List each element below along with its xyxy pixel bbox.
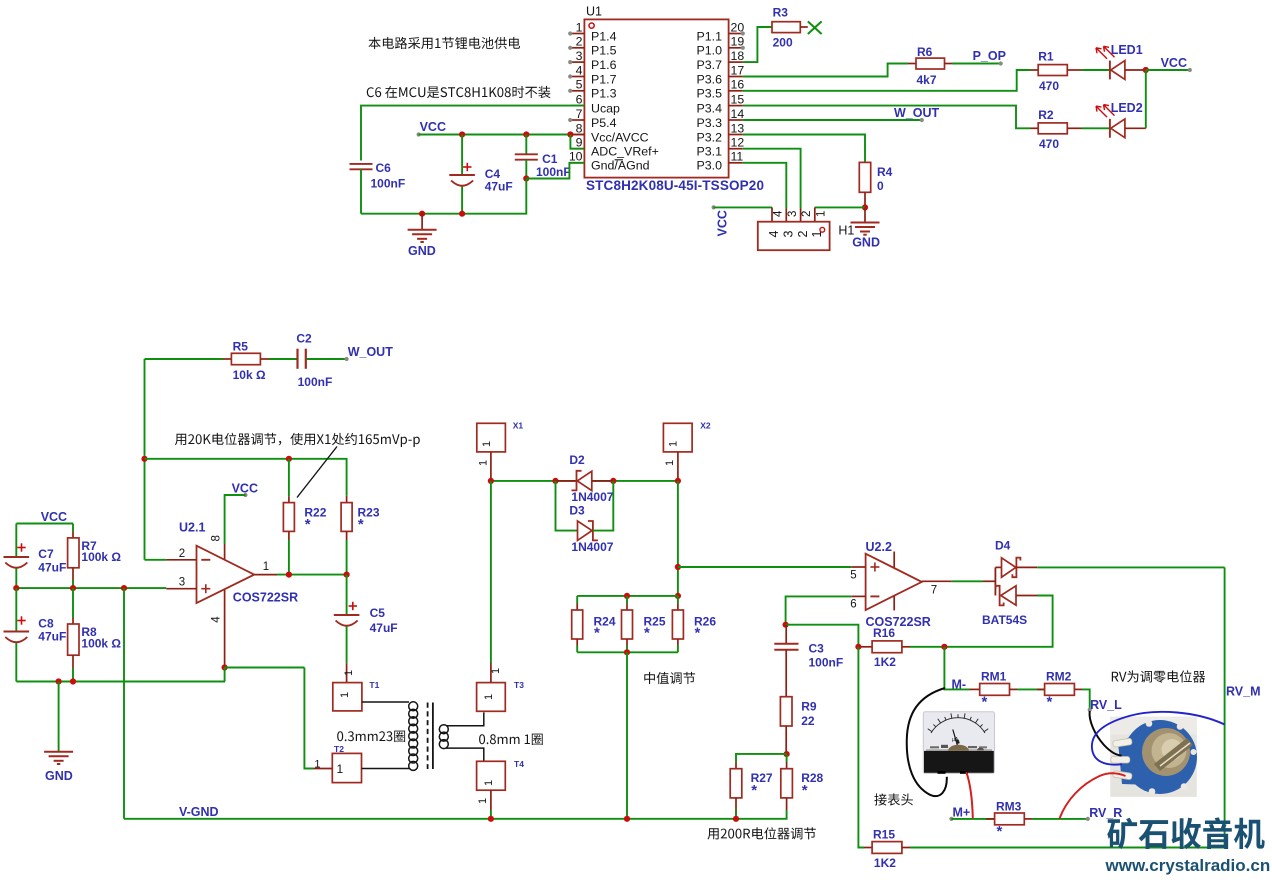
svg-text:Ucap: Ucap — [591, 102, 620, 116]
junction C7/C8 — [13, 585, 19, 591]
svg-text:4k7: 4k7 — [917, 73, 937, 87]
note: power source text — [369, 37, 521, 49]
net label VCC (divider) — [16, 510, 73, 524]
junction X1 — [488, 478, 494, 484]
svg-text:1: 1 — [483, 780, 495, 786]
svg-text:1: 1 — [668, 441, 680, 447]
wire ground rail (analog) — [16, 681, 225, 683]
wire R6 to P_OP endpoint — [952, 63, 1001, 65]
terminal T1 — [333, 680, 380, 711]
wire D4 top to right rail — [1037, 566, 1224, 568]
wire RM1 to RM2 — [1017, 688, 1045, 690]
svg-text:7: 7 — [576, 107, 583, 121]
wire P3.6 pin17 to R6 — [743, 64, 908, 77]
resistor R9 — [780, 697, 816, 754]
capacitor C2 — [269, 332, 347, 389]
diode D2 1N4007 — [556, 453, 614, 504]
svg-text:7: 7 — [931, 585, 937, 597]
resistor RM1 — [970, 670, 1018, 711]
terminal T3 — [477, 663, 525, 711]
transformer core — [428, 703, 433, 770]
capacitor C3 — [774, 625, 843, 697]
wire P3.2 pin13 to R4 — [743, 135, 865, 163]
svg-text:1: 1 — [490, 668, 502, 674]
wire R9 node to R27 — [736, 754, 787, 762]
terminal T2 — [314, 744, 362, 783]
meter photo (analog microammeter) — [923, 712, 994, 774]
junction D2 anode-side — [552, 478, 558, 484]
junction C1 bottom — [523, 175, 529, 181]
LED LED1 — [1096, 43, 1146, 80]
svg-text:ADC_VRef+: ADC_VRef+ — [591, 145, 659, 159]
svg-text:22: 22 — [801, 714, 815, 728]
net label M+ — [949, 806, 970, 822]
junction T4/V-GND — [488, 816, 494, 822]
svg-text:100nF: 100nF — [536, 165, 571, 179]
junction R9 bottom — [784, 751, 790, 757]
junction M- node — [941, 644, 947, 650]
svg-text:2: 2 — [801, 211, 813, 217]
wire M- node down to RM1 — [944, 647, 969, 690]
wire P3.3 pin14 to W_OUT endpoint — [743, 119, 922, 121]
junction ground/GND symbol — [56, 678, 62, 684]
svg-text:P3.6: P3.6 — [697, 72, 723, 86]
resistor R8 — [68, 588, 122, 681]
svg-text:4: 4 — [767, 231, 781, 238]
pointer line from note to R22 — [297, 447, 337, 498]
svg-text:100nF: 100nF — [371, 176, 406, 190]
wire M+ to RM3 — [951, 818, 994, 820]
wire Ucap net: pin6 to C6 top — [361, 106, 584, 161]
svg-text:P1.0: P1.0 — [697, 44, 723, 58]
svg-text:15: 15 — [731, 93, 745, 107]
wire right rail down — [1224, 567, 1226, 847]
meter black lead (hand-drawn) — [907, 688, 947, 796]
wire R2 to LED2 — [1082, 127, 1110, 129]
wire LED1 to VCC endpoint — [1146, 69, 1190, 71]
junction X2 — [675, 478, 681, 484]
wire R24/R25/R26 top rail — [577, 595, 678, 597]
wire D4 bottom to M- node — [944, 596, 1052, 647]
MCU U1 STC8H2K08U-45I-TSSOP20 — [568, 5, 764, 194]
wire ground rail under C6/C4/C1 — [361, 179, 526, 214]
svg-text:47uF: 47uF — [485, 180, 513, 194]
svg-text:4: 4 — [211, 616, 223, 623]
svg-text:C8: C8 — [38, 617, 54, 631]
junction output/R22 — [286, 572, 292, 578]
svg-text:1: 1 — [664, 460, 676, 466]
wire P3.5 pin16 to R1 — [743, 70, 1031, 91]
svg-text:1: 1 — [483, 694, 495, 700]
svg-text:3: 3 — [782, 231, 796, 238]
svg-text:P1.7: P1.7 — [591, 72, 617, 86]
junction R4/H1 pin1/GND — [862, 204, 868, 210]
wire P3.0 pin11 to H1 pin3 — [743, 163, 787, 222]
wire P3.7 pin18 to R3 — [743, 27, 772, 62]
svg-text:C7: C7 — [38, 547, 54, 561]
wire U2.1 output to R22/R23 — [277, 574, 347, 576]
svg-text:RM2: RM2 — [1046, 670, 1072, 684]
junction LED1/VCC — [1143, 67, 1149, 73]
svg-text:RV_R: RV_R — [1089, 806, 1122, 820]
svg-text:RV_L: RV_L — [1090, 698, 1122, 712]
wire pin4 node to T2 column — [225, 667, 305, 669]
resistor R5 — [145, 340, 270, 383]
resistor R28 — [781, 754, 824, 810]
svg-text:1: 1 — [815, 211, 827, 217]
capacitor C6 — [350, 161, 406, 214]
svg-text:RV_M: RV_M — [1226, 685, 1261, 699]
svg-text:U2.2: U2.2 — [866, 540, 892, 554]
svg-text:R1: R1 — [1038, 50, 1054, 64]
wire noninverting rail (pin3) — [16, 587, 166, 589]
svg-text:U1: U1 — [586, 5, 602, 19]
svg-text:P1.6: P1.6 — [591, 58, 617, 72]
svg-text:STC8H2K08U-45I-TSSOP20: STC8H2K08U-45I-TSSOP20 — [586, 178, 764, 193]
svg-text:9: 9 — [576, 136, 583, 150]
svg-text:www.crystalradio.cn: www.crystalradio.cn — [1105, 856, 1271, 875]
svg-text:R5: R5 — [233, 340, 249, 354]
note: mid-value adjust text — [644, 672, 695, 684]
VCC net label and rail (top) — [417, 120, 585, 137]
junction V-GND column — [121, 585, 127, 591]
svg-text:1: 1 — [337, 762, 344, 776]
junction ground/R8 — [70, 678, 76, 684]
svg-text:*: * — [997, 823, 1003, 840]
junction R26 top — [675, 593, 681, 599]
svg-text:*: * — [358, 516, 364, 533]
junction R25 bottom — [624, 649, 630, 655]
svg-text:17: 17 — [731, 63, 745, 77]
svg-text:*: * — [644, 625, 650, 642]
svg-text:T3: T3 — [514, 680, 524, 690]
svg-text:COS722SR: COS722SR — [233, 591, 298, 605]
svg-text:T4: T4 — [514, 759, 524, 769]
svg-text:*: * — [1047, 694, 1053, 711]
svg-text:D3: D3 — [569, 503, 585, 517]
junction R25 top — [624, 593, 630, 599]
junction C3 top — [783, 622, 789, 628]
svg-text:P3.7: P3.7 — [697, 58, 723, 72]
svg-text:D4: D4 — [995, 539, 1011, 553]
junction VCC/C4 — [459, 131, 465, 137]
svg-text:GND: GND — [45, 769, 73, 783]
ground symbol GND (top left) — [408, 214, 437, 259]
svg-text:P3.1: P3.1 — [697, 145, 723, 159]
svg-text:X1: X1 — [513, 420, 524, 430]
svg-text:1: 1 — [339, 692, 351, 698]
svg-text:5: 5 — [576, 78, 583, 92]
note: primary winding text — [337, 731, 405, 742]
svg-text:1: 1 — [263, 561, 269, 573]
junction GND symbol tap — [419, 211, 425, 217]
svg-text:47uF: 47uF — [38, 630, 66, 644]
svg-text:W_OUT: W_OUT — [348, 345, 394, 359]
junction VCC/C1 — [523, 131, 529, 137]
resistor R23 — [341, 496, 380, 575]
svg-text:8: 8 — [576, 121, 583, 135]
svg-text:4: 4 — [773, 210, 785, 217]
resistor R16 — [858, 626, 944, 669]
svg-text:C6: C6 — [376, 161, 392, 175]
svg-text:BAT54S: BAT54S — [982, 613, 1027, 627]
wire VCC to pin9 ADC_VRef+ — [570, 135, 584, 149]
net label RV_L — [1088, 698, 1123, 712]
svg-text:8: 8 — [211, 535, 223, 541]
svg-text:M+: M+ — [953, 806, 971, 820]
junction output/R23/C5 — [344, 572, 350, 578]
svg-text:R2: R2 — [1038, 108, 1054, 122]
svg-text:1: 1 — [314, 759, 320, 771]
junction feedback rail left — [141, 456, 147, 462]
resistor R1 — [1031, 50, 1082, 93]
wire P3.1 pin12 to H1 pin2 — [743, 149, 801, 222]
svg-text:W_OUT: W_OUT — [894, 106, 940, 120]
svg-text:P1.5: P1.5 — [591, 44, 617, 58]
resistor R22 — [283, 459, 326, 575]
svg-text:1: 1 — [481, 441, 493, 447]
diode D3 1N4007 — [556, 481, 614, 554]
capacitor C1 — [515, 135, 571, 180]
junction R7/R8 — [70, 585, 76, 591]
junction U2.1 pin4 node — [222, 664, 228, 670]
svg-text:100nF: 100nF — [809, 656, 844, 670]
svg-text:GND: GND — [852, 235, 880, 249]
wire C1 to pin10 Gnd/AGnd — [526, 163, 584, 179]
svg-text:R9: R9 — [801, 699, 817, 713]
wire U2.2 pin6 to C3 node — [786, 596, 852, 624]
svg-text:X2: X2 — [700, 420, 711, 430]
junction D2 cathode-side — [610, 478, 616, 484]
resistor R4 — [859, 162, 892, 207]
resistor RM2 — [1037, 670, 1082, 711]
svg-text:P5.4: P5.4 — [591, 116, 617, 130]
junction R27/V-GND — [733, 816, 739, 822]
svg-text:P_OP: P_OP — [973, 49, 1006, 63]
svg-text:D2: D2 — [569, 453, 585, 467]
svg-text:6: 6 — [850, 598, 856, 610]
svg-text:12: 12 — [731, 136, 745, 150]
resistor R27 — [730, 762, 773, 819]
svg-text:3: 3 — [576, 49, 583, 63]
resistor R15 — [864, 827, 910, 870]
svg-text:100k Ω: 100k Ω — [81, 636, 121, 650]
svg-text:14: 14 — [731, 107, 745, 121]
capacitor C7 electrolytic — [4, 524, 67, 589]
no-connect cross on R3 — [808, 21, 822, 34]
wire VCC to U2.1 pin8 — [225, 495, 246, 544]
svg-text:P3.2: P3.2 — [697, 130, 723, 144]
svg-text:1K2: 1K2 — [874, 856, 896, 870]
wire U2.1 pin2 riser — [145, 559, 167, 561]
svg-text:2: 2 — [179, 548, 185, 560]
resistor RM3 — [986, 799, 1032, 840]
svg-text:T1: T1 — [369, 680, 379, 690]
svg-text:*: * — [982, 694, 988, 711]
net label W_OUT (filter) — [345, 345, 394, 361]
junction C4 bottom — [459, 211, 465, 217]
net label P_OP — [973, 49, 1006, 66]
wire T2 feed — [304, 668, 313, 769]
capacitor C8 electrolytic — [4, 588, 67, 681]
svg-text:*: * — [305, 516, 311, 533]
svg-text:R4: R4 — [877, 165, 893, 179]
wire W_OUT column down to feedback rail — [144, 359, 146, 560]
junction R25/V-GND — [624, 816, 630, 822]
wire VCC endpoint to H1 pin4 — [714, 207, 772, 221]
net label W_OUT (top) — [894, 106, 940, 122]
transformer primary winding 0.3mm 23 turns — [362, 702, 418, 771]
wire LED2 to VCC riser — [1145, 70, 1147, 128]
capacitor C5 electrolytic — [334, 575, 398, 683]
svg-text:1: 1 — [477, 798, 489, 804]
meter red lead (hand-drawn) — [966, 772, 973, 819]
svg-text:47uF: 47uF — [370, 621, 398, 635]
svg-text:10k Ω: 10k Ω — [233, 368, 266, 382]
svg-text:2: 2 — [576, 35, 583, 49]
wire pin4 node down to ground rail — [224, 668, 226, 682]
ground symbol GND (H1) — [851, 207, 880, 249]
junction VCC/pin9 branch — [567, 131, 573, 137]
svg-text:1: 1 — [478, 460, 490, 466]
svg-text:VCC: VCC — [716, 210, 730, 236]
svg-text:GND: GND — [408, 244, 436, 258]
wire U2.2 output to D4 — [951, 580, 983, 582]
svg-text:RM3: RM3 — [996, 799, 1022, 813]
svg-text:*: * — [751, 782, 757, 799]
note: 20K potentiometer adjust text — [175, 433, 420, 447]
terminal X1 — [477, 420, 524, 481]
op-amp U2.1 COS722SR — [166, 521, 298, 668]
svg-text:470: 470 — [1039, 79, 1059, 93]
resistor R26 — [672, 596, 716, 652]
wire X2 column down — [677, 481, 679, 596]
svg-text:1: 1 — [343, 670, 355, 676]
svg-text:6: 6 — [576, 93, 583, 107]
svg-text:1: 1 — [576, 20, 583, 34]
svg-text:*: * — [695, 625, 701, 642]
svg-text:C3: C3 — [809, 641, 825, 655]
capacitor C4 electrolytic — [449, 135, 512, 214]
svg-text:0: 0 — [877, 179, 884, 193]
junction pin5 branch — [675, 564, 681, 570]
svg-text:1N4007: 1N4007 — [571, 490, 613, 504]
wire R1 to LED1 — [1082, 69, 1110, 71]
svg-text:18: 18 — [731, 49, 745, 63]
wire RM2 to RV_L endpoint — [1082, 689, 1090, 709]
wire H1 pin1 to junction — [815, 207, 865, 221]
resistor R3 — [772, 5, 808, 49]
svg-text:200: 200 — [773, 36, 793, 50]
resistor R7 — [68, 524, 122, 589]
svg-text:1K2: 1K2 — [874, 655, 896, 669]
svg-text:100k Ω: 100k Ω — [81, 550, 121, 564]
svg-text:P1.1: P1.1 — [697, 29, 723, 43]
net label VCC (U2.1) — [232, 482, 258, 498]
svg-text:R15: R15 — [873, 827, 895, 841]
resistor R2 — [1031, 108, 1082, 151]
note: 200R potentiometer adjust text — [707, 827, 815, 839]
svg-text:VCC: VCC — [41, 510, 67, 524]
wire P3.4 pin15 to R2 — [743, 106, 1031, 129]
LED LED2 — [1096, 101, 1146, 138]
wire V-GND rail — [124, 810, 787, 819]
svg-text:C2: C2 — [296, 332, 312, 346]
svg-text:P1.4: P1.4 — [591, 29, 617, 43]
svg-text:P3.5: P3.5 — [697, 87, 723, 101]
pot blue lead to RV_M (hand-drawn) — [1092, 712, 1225, 765]
svg-text:11: 11 — [731, 150, 744, 164]
svg-text:VCC: VCC — [232, 482, 258, 496]
svg-text:100nF: 100nF — [298, 375, 333, 389]
wire to U2.2 pin5 — [678, 566, 851, 568]
svg-text:*: * — [594, 625, 600, 642]
op-amp U2.2 COS722SR — [850, 540, 951, 629]
svg-text:P3.3: P3.3 — [697, 116, 723, 130]
wire RM3 to RV_R endpoint — [1032, 818, 1088, 820]
wire X1 down to T3 — [490, 481, 492, 663]
wire T4 to V-GND rail — [490, 810, 492, 819]
svg-text:R6: R6 — [917, 45, 933, 59]
svg-text:Gnd/AGnd: Gnd/AGnd — [591, 159, 650, 173]
net label VCC (H1, rotated) — [712, 205, 730, 236]
wire R24/R25/R26 bottom rail — [577, 651, 678, 653]
svg-text:P1.3: P1.3 — [591, 87, 617, 101]
resistor R6 — [908, 45, 952, 87]
pot red lead to RV_R wire (hand-drawn) — [1060, 773, 1126, 818]
net label RV_R — [1086, 806, 1123, 821]
svg-text:P3.4: P3.4 — [697, 102, 723, 116]
resistor R25 — [622, 596, 666, 652]
wire C3 node to R16 left — [786, 625, 859, 647]
transformer secondary winding 0.8mm 1 turn — [439, 712, 484, 761]
svg-text:VCC: VCC — [420, 120, 446, 134]
wire R25 column to V-GND rail — [626, 652, 628, 819]
svg-text:C1: C1 — [542, 152, 558, 166]
potentiometer photo RV — [1110, 717, 1197, 797]
dual schottky D4 BAT54S — [982, 539, 1037, 627]
svg-text:M-: M- — [952, 678, 967, 692]
watermark site name — [1107, 817, 1264, 849]
svg-text:P3.0: P3.0 — [697, 159, 723, 173]
terminal X2 — [663, 420, 710, 481]
pot black lead (hand-drawn) — [1090, 711, 1122, 756]
svg-text:RM1: RM1 — [981, 670, 1007, 684]
wire R16 column down to R15 — [858, 647, 864, 848]
svg-text:10: 10 — [569, 150, 583, 164]
resistor R24 — [572, 596, 616, 652]
svg-text:*: * — [802, 782, 808, 799]
note: C6 not fitted text — [367, 86, 551, 98]
wire R15 to right rail (under watermark) — [910, 847, 1225, 849]
svg-text:LED2: LED2 — [1111, 101, 1143, 115]
svg-text:VCC: VCC — [1161, 56, 1187, 70]
wire X1-X2 bus — [491, 480, 678, 482]
svg-text:5: 5 — [850, 569, 856, 581]
connector H1 — [758, 210, 855, 250]
svg-text:1N4007: 1N4007 — [571, 540, 613, 554]
svg-text:2: 2 — [796, 231, 810, 238]
note: secondary winding text — [479, 734, 543, 745]
svg-text:470: 470 — [1039, 137, 1059, 151]
terminal T4 — [477, 759, 525, 810]
svg-text:C5: C5 — [370, 606, 386, 620]
wire V-GND column — [123, 588, 125, 819]
svg-text:U2.1: U2.1 — [179, 521, 205, 535]
svg-text:V-GND: V-GND — [179, 805, 219, 819]
svg-text:13: 13 — [731, 121, 745, 135]
wire feedback rail — [145, 459, 347, 496]
